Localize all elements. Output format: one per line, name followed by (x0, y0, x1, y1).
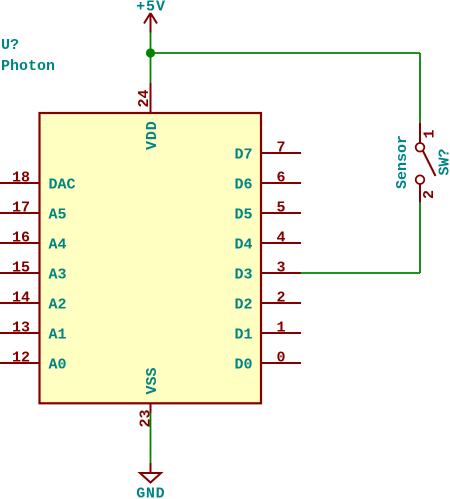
pin number 1 (276, 320, 285, 337)
pin name D2 (234, 296, 252, 313)
switch SW? pin 1 stub (419, 123, 421, 143)
svg-text:18: 18 (12, 170, 30, 187)
svg-text:VDD: VDD (144, 120, 161, 150)
svg-text:D5: D5 (234, 206, 252, 223)
wire +5V to VDD pin (150, 33, 152, 84)
pin number 3 (276, 260, 285, 277)
svg-text:Photon: Photon (1, 58, 55, 75)
svg-text:A3: A3 (49, 266, 67, 283)
svg-text:DAC: DAC (49, 176, 76, 193)
switch pin number 2 (421, 190, 438, 199)
junction node at +5V branch (146, 48, 155, 57)
pin VSS (23) stub (150, 403, 152, 413)
pin number 18 (12, 170, 30, 187)
pin A0 (12) wire (0, 362, 39, 364)
svg-text:1: 1 (422, 129, 439, 138)
svg-text:1: 1 (276, 320, 285, 337)
pin number 2 (276, 290, 285, 307)
pin D3 (3) wire (261, 272, 301, 274)
pin name D4 (234, 236, 252, 253)
pin number 0 (276, 350, 285, 367)
svg-text:A2: A2 (49, 296, 67, 313)
pin A2 (14) wire (0, 302, 39, 304)
pin A5 (17) wire (0, 212, 39, 214)
pin VDD (24) stub (150, 83, 152, 113)
svg-text:24: 24 (136, 89, 153, 107)
svg-text:17: 17 (12, 200, 30, 217)
svg-text:+5V: +5V (136, 0, 166, 15)
ground symbol triangle (140, 473, 161, 483)
switch SW? contact 1 (416, 143, 425, 152)
svg-text:2: 2 (276, 290, 285, 307)
reference U? (1, 37, 19, 54)
op-amp U1 body (IC U? Photon) (40, 113, 262, 403)
wire switch pin 2 down (419, 203, 421, 273)
pin D6 (6) wire (261, 182, 301, 184)
svg-text:A5: A5 (49, 206, 67, 223)
pin D4 (4) wire (261, 242, 301, 244)
svg-text:U?: U? (1, 37, 19, 54)
pin name D3 (234, 266, 252, 283)
svg-text:5: 5 (276, 200, 285, 217)
pin name VDD (144, 120, 161, 150)
pin name D1 (234, 326, 252, 343)
wire VSS pin to GND (150, 413, 152, 464)
svg-text:A0: A0 (49, 356, 67, 373)
switch SW? pin 2 stub (419, 184, 421, 203)
pin name A5 (49, 206, 67, 223)
svg-text:13: 13 (12, 320, 30, 337)
svg-text:15: 15 (12, 260, 30, 277)
pin name A3 (49, 266, 67, 283)
svg-text:D3: D3 (234, 266, 252, 283)
label SW? (437, 148, 450, 175)
pin number 4 (276, 230, 285, 247)
svg-text:7: 7 (276, 140, 285, 157)
pin number 12 (12, 350, 30, 367)
pin name DAC (49, 176, 76, 193)
pin number 17 (12, 200, 30, 217)
pin number 13 (12, 320, 30, 337)
pin name D6 (234, 176, 252, 193)
pin D5 (5) wire (261, 212, 301, 214)
pin name D5 (234, 206, 252, 223)
wire down to switch pin 1 (419, 53, 421, 123)
svg-text:D4: D4 (234, 236, 252, 253)
svg-text:12: 12 (12, 350, 30, 367)
pin number 14 (12, 290, 30, 307)
wire junction to switch (horizontal) (151, 52, 421, 54)
pin name D7 (234, 146, 252, 163)
pin A4 (16) wire (0, 242, 39, 244)
svg-text:2: 2 (421, 190, 438, 199)
svg-text:D1: D1 (234, 326, 252, 343)
pin name A1 (49, 326, 67, 343)
svg-text:23: 23 (138, 409, 155, 427)
svg-text:SW?: SW? (437, 148, 450, 175)
svg-text:D0: D0 (234, 356, 252, 373)
pin name VSS (144, 367, 161, 394)
svg-text:D6: D6 (234, 176, 252, 193)
ground symbol stem (150, 463, 152, 473)
svg-text:4: 4 (276, 230, 285, 247)
pin D0 (0) wire (261, 362, 301, 364)
svg-text:D2: D2 (234, 296, 252, 313)
pin number 23 (138, 409, 155, 427)
svg-text:14: 14 (12, 290, 30, 307)
label +5V (136, 0, 166, 15)
pin number 6 (276, 170, 285, 187)
svg-text:Sensor: Sensor (394, 135, 411, 189)
svg-text:GND: GND (136, 486, 165, 499)
pin D1 (1) wire (261, 332, 301, 334)
power symbol +5V arrow (144, 13, 157, 33)
svg-text:A4: A4 (49, 236, 67, 253)
label GND (136, 486, 165, 499)
switch SW? contact 2 (416, 175, 425, 184)
label Sensor (394, 135, 411, 189)
pin name A4 (49, 236, 67, 253)
pin A3 (15) wire (0, 272, 39, 274)
svg-text:16: 16 (12, 230, 30, 247)
wire to pin D3 (301, 272, 421, 274)
pin number 15 (12, 260, 30, 277)
svg-text:VSS: VSS (144, 367, 161, 394)
pin number 7 (276, 140, 285, 157)
pin name D0 (234, 356, 252, 373)
switch SW? blade (423, 151, 436, 176)
pin number 5 (276, 200, 285, 217)
pin name A2 (49, 296, 67, 313)
pin name A0 (49, 356, 67, 373)
value Photon (1, 58, 55, 75)
switch pin number 1 (422, 129, 439, 138)
svg-text:3: 3 (276, 260, 285, 277)
pin DAC (18) wire (0, 182, 39, 184)
pin number 16 (12, 230, 30, 247)
svg-text:A1: A1 (49, 326, 67, 343)
svg-text:D7: D7 (234, 146, 252, 163)
svg-text:6: 6 (276, 170, 285, 187)
svg-text:0: 0 (276, 350, 285, 367)
pin D7 (7) wire (261, 152, 301, 154)
pin number 24 (136, 89, 153, 107)
pin D2 (2) wire (261, 302, 301, 304)
pin A1 (13) wire (0, 332, 39, 334)
